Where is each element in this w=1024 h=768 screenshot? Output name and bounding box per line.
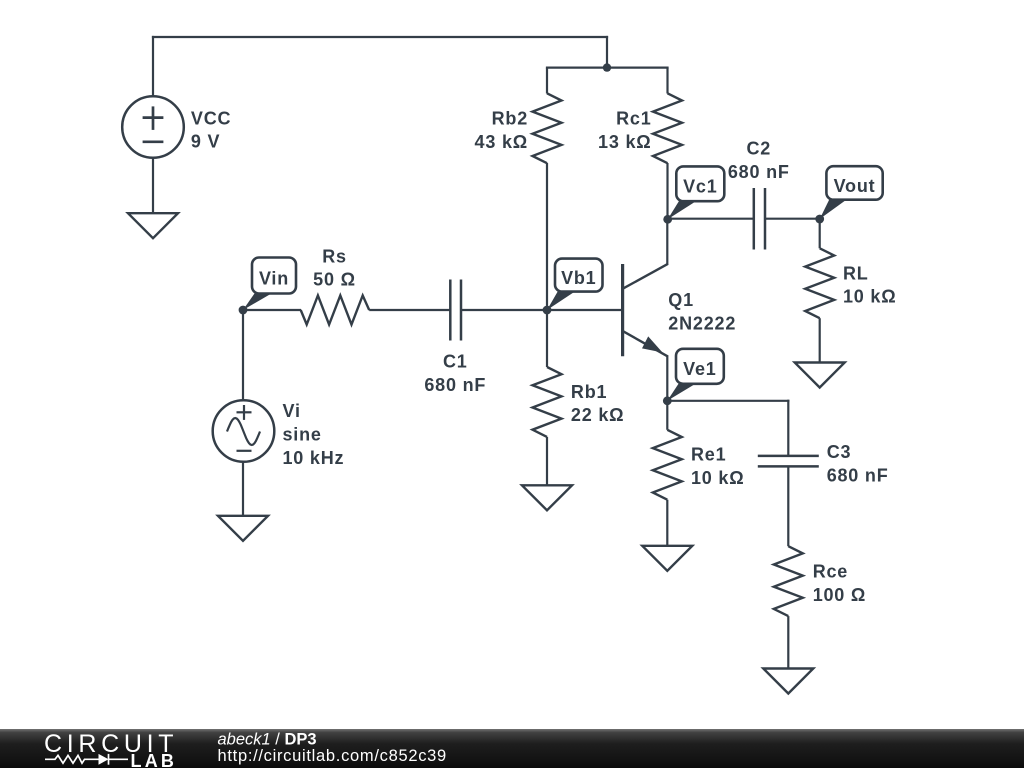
- wire Rs to C1: [369, 309, 450, 311]
- wire Vin node down to Vi source: [242, 310, 244, 401]
- wire Vout node to RL: [819, 219, 821, 249]
- svg-text:C1: C1: [443, 351, 468, 371]
- svg-text:Vi: Vi: [283, 401, 301, 421]
- node Ve1: [667, 382, 698, 401]
- wire Rb1 top lead: [546, 310, 548, 367]
- resistor Rc1: [653, 93, 682, 163]
- wire Rb2 bottom to Vb1 node: [546, 163, 548, 311]
- junction top rail: [603, 63, 611, 71]
- wire C1 to Vb1 node to base: [461, 309, 623, 311]
- capacitor C1: [450, 280, 461, 341]
- svg-text:Rb2: Rb2: [492, 108, 528, 128]
- svg-text:Q1: Q1: [668, 290, 694, 310]
- svg-text:VCC: VCC: [191, 108, 231, 128]
- svg-text:2N2222: 2N2222: [668, 313, 736, 333]
- wire Vc1 node to C2: [668, 218, 755, 220]
- svg-text:22 kΩ: 22 kΩ: [571, 405, 624, 425]
- wire Rce to ground: [787, 616, 789, 669]
- wire VCC top to rail: [152, 36, 154, 96]
- wire Ve1 node to C3 branch: [667, 400, 789, 402]
- svg-text:10 kΩ: 10 kΩ: [843, 287, 896, 307]
- wire RL to ground: [819, 318, 821, 363]
- resistor Rb2: [533, 93, 562, 163]
- wire Re1 to ground: [666, 500, 668, 547]
- svg-text:Rs: Rs: [322, 246, 347, 266]
- svg-text:http://circuitlab.com/c852c39: http://circuitlab.com/c852c39: [218, 747, 447, 765]
- svg-text:C3: C3: [827, 442, 852, 462]
- svg-text:680 nF: 680 nF: [827, 466, 889, 486]
- wire VCC to ground: [152, 158, 154, 214]
- svg-text:Vin: Vin: [259, 268, 289, 288]
- svg-text:RL: RL: [843, 263, 869, 283]
- resistor RL: [805, 248, 834, 318]
- wire Rc1 bottom to Vc1 node: [666, 163, 668, 219]
- svg-text:100 Ω: 100 Ω: [813, 585, 866, 605]
- svg-text:43 kΩ: 43 kΩ: [475, 132, 528, 152]
- svg-text:C2: C2: [746, 139, 771, 159]
- svg-text:LAB: LAB: [131, 751, 178, 768]
- svg-text:13 kΩ: 13 kΩ: [598, 132, 651, 152]
- svg-text:10 kHz: 10 kHz: [283, 448, 345, 468]
- voltage source VCC: [122, 96, 184, 158]
- svg-text:Vout: Vout: [834, 176, 876, 196]
- wire Vin node to Rs: [243, 309, 301, 311]
- ground below Rb1: [522, 485, 572, 510]
- resistor Re1: [653, 430, 682, 500]
- resistor Rs: [301, 296, 370, 325]
- sine source Vi: [213, 400, 275, 462]
- node Vout: [820, 198, 849, 219]
- wire emitter down to Ve1 node: [666, 356, 668, 402]
- wire C2 to Vout node: [764, 218, 820, 220]
- capacitor C2: [754, 188, 765, 250]
- wire C3 to Rce: [787, 467, 789, 547]
- svg-text:Vc1: Vc1: [683, 177, 717, 197]
- svg-text:abeck1 / DP3: abeck1 / DP3: [218, 730, 317, 748]
- svg-text:Vb1: Vb1: [561, 268, 596, 288]
- svg-text:10 kΩ: 10 kΩ: [691, 468, 744, 488]
- svg-text:sine: sine: [283, 424, 322, 444]
- node Vc1: [668, 200, 699, 220]
- wire top rail Rb2/Rc1: [546, 66, 669, 68]
- resistor Rb1: [533, 367, 562, 437]
- svg-text:50 Ω: 50 Ω: [313, 270, 356, 290]
- ground below Rce: [763, 669, 813, 694]
- wire Ve1 node to Re1: [666, 401, 668, 430]
- ground below Vi: [218, 516, 268, 541]
- capacitor C3: [758, 456, 819, 467]
- node Vin: [243, 292, 274, 310]
- svg-text:Rb1: Rb1: [571, 382, 607, 402]
- wire Rc1 top lead: [666, 68, 668, 94]
- resistor Rce: [774, 546, 803, 616]
- svg-text:Re1: Re1: [691, 445, 726, 465]
- node Vb1: [547, 290, 577, 310]
- wire Rb2 top lead: [546, 68, 548, 94]
- svg-text:Rce: Rce: [813, 561, 848, 581]
- svg-text:Ve1: Ve1: [683, 359, 716, 379]
- wire collector up to Vc1 node: [666, 219, 668, 265]
- CircuitLab logo resistor-diode symbol: [45, 754, 128, 765]
- svg-text:Rc1: Rc1: [616, 108, 651, 128]
- wire Rb1 bottom to ground: [546, 437, 548, 486]
- ground below RL: [795, 363, 845, 388]
- ground below VCC: [128, 213, 178, 238]
- svg-text:680 nF: 680 nF: [728, 162, 790, 182]
- svg-text:9 V: 9 V: [191, 132, 220, 152]
- transistor Q1 2N2222: [623, 264, 668, 357]
- wire Vi source to ground: [242, 462, 244, 517]
- ground below Re1: [642, 546, 692, 571]
- svg-text:680 nF: 680 nF: [424, 375, 486, 395]
